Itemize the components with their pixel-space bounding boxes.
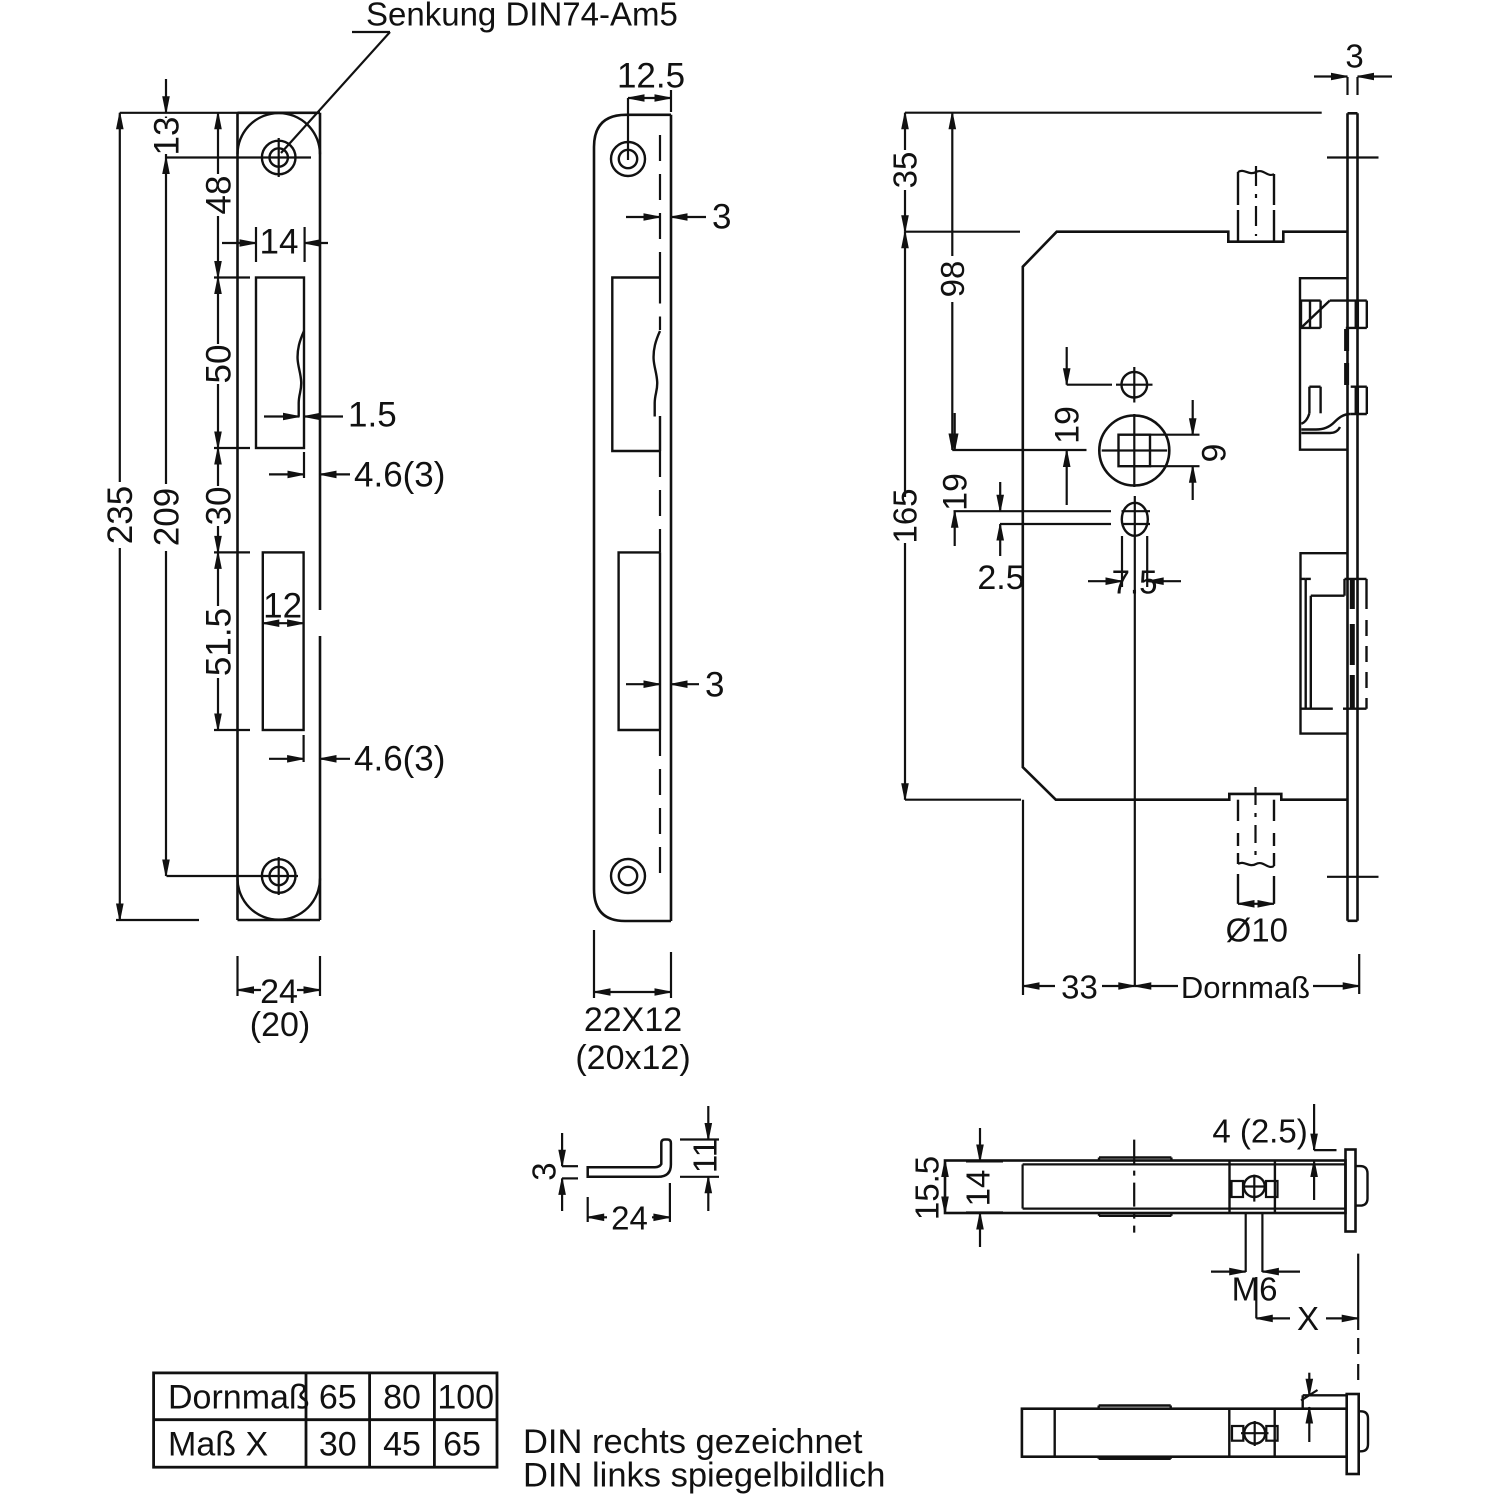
view 2 latch bolt curve [654,331,660,417]
svg-text:1.5: 1.5 [348,395,397,434]
bottom screw hole countersink [262,859,296,893]
svg-text:14: 14 [960,1170,997,1207]
dim 19 lower arrows [954,413,956,450]
dim 9 arrows [1192,400,1194,435]
svg-text:98: 98 [934,261,971,298]
deadbolt stem below case [1237,800,1239,821]
view 6 lip tick slash [1301,1390,1318,1401]
dim 2.5 arrows [999,482,1001,511]
latch keeper block top [1300,278,1348,450]
dim X line [1256,1317,1290,1319]
svg-text:12.5: 12.5 [617,56,685,95]
view 3 top extension line [905,112,1322,114]
dim 35 line [902,113,908,129]
dim 3 angle arrows [561,1133,563,1166]
lock case outline [1023,232,1348,800]
svg-text:80: 80 [383,1378,421,1416]
dim 4.6(3) upper tick [303,452,305,478]
table Dornmass / Mass X [154,1373,497,1467]
dim 11 ticks [680,1138,719,1140]
dim 4.6(3) lower arrows [269,758,304,760]
svg-text:4 (2.5): 4 (2.5) [1212,1113,1307,1150]
dim Ø10 arrows [1238,903,1274,905]
projection dashed line between views [1357,1338,1359,1390]
dim 9 extension lines [1150,434,1200,436]
svg-text:3: 3 [705,665,724,704]
svg-text:51.5: 51.5 [199,608,238,676]
dim 19 upper extension [1067,384,1112,386]
dim 15.5 arrows on left edge [942,1161,948,1177]
view 2 deadbolt cutout [619,552,660,730]
svg-text:DIN links spiegelbildlich: DIN links spiegelbildlich [523,1457,885,1495]
view 6 faceplate bar [1347,1394,1359,1474]
view 5 fixing screw partition lines [1228,1161,1230,1214]
svg-text:65: 65 [319,1378,357,1416]
latch bolt break line [1238,171,1274,175]
dim line 235/13/209 column [165,79,167,113]
svg-text:9: 9 [1195,444,1233,463]
follower hole [1099,416,1169,486]
view 2 hidden bend dashed line [659,135,661,278]
dim 235 bottom extension [116,919,199,921]
dim 4 (2.5) arrows [1313,1104,1315,1150]
dim 3 faceplate arrows [1314,75,1348,77]
view 5 inner cover lines [1023,1163,1346,1165]
view 6 left cap line [1053,1409,1055,1457]
dim 33 line [1023,985,1055,987]
view 5 follower axis centerline [1133,1140,1135,1233]
dim 235 line [117,113,123,129]
view 1: faceplate front view outline [238,112,321,115]
deadbolt right nib [1365,579,1367,609]
svg-text:48: 48 [199,176,238,215]
view 6: lock top view variant outline [1022,1409,1347,1457]
follower center extension line [952,449,1086,451]
svg-text:14: 14 [260,222,299,261]
deadbolt cutout opening in faceplate [263,552,304,730]
dim 14 ticks [966,1160,1003,1162]
deadbolt centerline [1254,787,1256,860]
follower vertical centerline down [1134,545,1136,986]
follower square spindle hole 9mm [1119,435,1151,467]
svg-text:4.6(3): 4.6(3) [354,739,445,778]
view 4: faceplate angle profile [588,1140,671,1177]
svg-text:3: 3 [712,197,731,236]
dim 12.5 line [628,97,671,99]
dim 12 line [263,622,304,624]
dim 22X12 line [594,991,671,993]
dim 24 angle arrows [588,1216,607,1218]
view 5 latch bolt nub [1356,1166,1368,1206]
guide slot lines [954,510,1112,512]
deadbolt stem lower part [1237,874,1239,904]
faceplate round-end arc top [238,113,321,154]
view 5: lock top view outline [945,1161,1346,1214]
dim 11 arrows [707,1106,709,1140]
svg-text:(20): (20) [250,1006,310,1044]
svg-text:165: 165 [887,488,924,543]
svg-text:50: 50 [199,345,238,384]
dim M6 arrows [1211,1270,1246,1272]
svg-text:(20x12): (20x12) [575,1039,690,1077]
dim 35 bottom extension [905,231,1020,233]
svg-text:35: 35 [887,152,924,189]
latch head right nib [1366,301,1368,328]
latch bolt stem [1237,172,1239,205]
view 5 M6 screw hole [1244,1176,1265,1197]
leader line from label to top hole [352,31,390,33]
dim X extension left [1255,1277,1257,1318]
deadbolt keeper block bottom [1301,553,1348,733]
view 6 M6 screw hole [1244,1423,1265,1444]
svg-text:45: 45 [383,1425,421,1463]
svg-text:3: 3 [526,1162,563,1180]
dim 165 bottom extension [905,799,1021,801]
view 6 screw boss squares [1232,1426,1243,1441]
latch bolt bevel diagonal [1301,301,1330,328]
faceplate end tick top [1327,156,1379,158]
svg-text:24: 24 [611,1200,648,1237]
view 2 latch cutout [612,278,660,452]
svg-text:Maß X: Maß X [168,1425,268,1463]
svg-text:30: 30 [319,1425,357,1463]
latch tail right nib [1366,387,1368,414]
dim 12.5 extension right [670,90,672,112]
svg-text:22X12: 22X12 [584,1001,682,1039]
dim 24 angle extensions [587,1197,589,1222]
latch bolt face curve in cutout [298,331,304,417]
follower centerlines [1133,414,1135,487]
dim 98 line [949,113,955,129]
bottom screw hole [270,867,288,885]
view 6 latch bolt nub [1359,1411,1368,1451]
view 2: faceplate side view outline [594,115,671,889]
svg-text:M6: M6 [1232,1271,1278,1308]
view 5 follower boss [1099,1156,1171,1158]
latch tail curves [1301,413,1309,424]
dim 14 ticks [255,227,257,262]
latch head top line through faceplate [1330,299,1367,301]
svg-text:19: 19 [1048,406,1086,444]
dim M6 extension lines [1245,1213,1247,1272]
auxiliary hole above follower [1122,372,1148,398]
svg-text:30: 30 [199,487,238,526]
dim 14 arrows view5 [979,1128,981,1161]
view 2 top screw hole [611,142,645,176]
svg-text:11: 11 [687,1139,724,1173]
cylinder slot extension lines [1121,536,1123,587]
svg-text:DIN rechts gezeichnet: DIN rechts gezeichnet [523,1423,863,1461]
svg-text:235: 235 [101,486,140,544]
dim 165 line [902,232,908,248]
latch bolt head upper part [1301,299,1321,301]
dim 1.5 arrows [264,415,300,417]
cylinder hole ellipse [1122,503,1148,536]
view 6 follower boss [1099,1404,1171,1406]
dim 3 angle ticks [562,1165,578,1167]
dim 13 extension top edge [120,112,238,114]
faceplate end tick bottom [1327,876,1379,878]
deadbolt break line [1238,863,1274,867]
svg-text:209: 209 [147,488,186,546]
dim 14 arrows [222,242,256,244]
svg-text:12: 12 [263,586,302,625]
svg-text:2.5: 2.5 [977,559,1024,597]
svg-text:19: 19 [936,473,974,511]
svg-text:33: 33 [1061,969,1098,1006]
svg-text:65: 65 [443,1425,481,1463]
svg-text:3: 3 [1345,38,1363,75]
faceplate round-end arc bottom [238,879,321,920]
latch bolt centerline [1255,166,1257,236]
extension lines cutout1 top/bottom, cutout2 top/bottom [214,276,250,278]
deadbolt channel [1304,579,1306,709]
latch tail upper line [1309,386,1320,388]
dim 4.6(3) lower tick [303,735,305,762]
top screw hole countersink [262,141,296,175]
svg-text:15.5: 15.5 [909,1156,946,1220]
dim Dornmass right extension [1358,954,1360,994]
dim 19 upper arrows [1066,347,1068,385]
svg-text:100: 100 [437,1378,494,1416]
view 5 screw boss squares [1232,1181,1244,1197]
latch tail box [1308,387,1310,414]
svg-text:Ø10: Ø10 [1226,911,1288,948]
svg-text:Senkung DIN74-Am5: Senkung DIN74-Am5 [366,0,678,33]
dim 7.5 arrows [1088,580,1122,582]
top screw hole centerlines [166,156,311,158]
deadbolt keeper bottom line [1301,708,1333,710]
dim 24 line with arrows [238,989,262,991]
view 2 hole centerline to dim 12.5 [627,98,629,160]
dim 33 extension via case edge [1022,800,1024,995]
view 3 faceplate edge-on [1348,112,1358,115]
dim 3 top arrows [626,216,660,218]
svg-text:4.6(3): 4.6(3) [354,455,445,494]
latch cutout opening in faceplate [256,278,304,449]
dim 4.6(3) upper arrows [269,473,304,475]
dim X extension right [1357,1254,1359,1330]
dim 4 (2.5) extension [1314,1149,1336,1151]
deadbolt step [1311,595,1345,597]
top screw hole [270,148,288,166]
view 6 lip thickness arrows [1308,1373,1310,1396]
view 6 fixing screw partition lines [1228,1409,1230,1457]
svg-text:Dornmaß: Dornmaß [168,1378,310,1416]
dim 22X12 extension lines [593,930,595,998]
dim 3 faceplate thickness extensions [1346,77,1348,95]
deadbolt thick bar [1350,579,1355,609]
bottom screw hole centerlines [167,875,299,877]
dim Dornmass line [1135,983,1151,989]
dim 24 extension lines [236,956,238,996]
dim 3 bottom arrows [626,683,660,685]
view 2 bottom screw hole [611,859,645,893]
view 5 faceplate bar [1346,1150,1356,1232]
svg-text:X: X [1297,1300,1319,1337]
view 6 angle lip [1303,1394,1347,1396]
svg-text:Dornmaß: Dornmaß [1181,970,1310,1005]
dim 48/50/30/51.5 column [215,113,221,129]
svg-text:13: 13 [147,117,186,156]
faceplate thick dashes at latch [1344,329,1349,351]
